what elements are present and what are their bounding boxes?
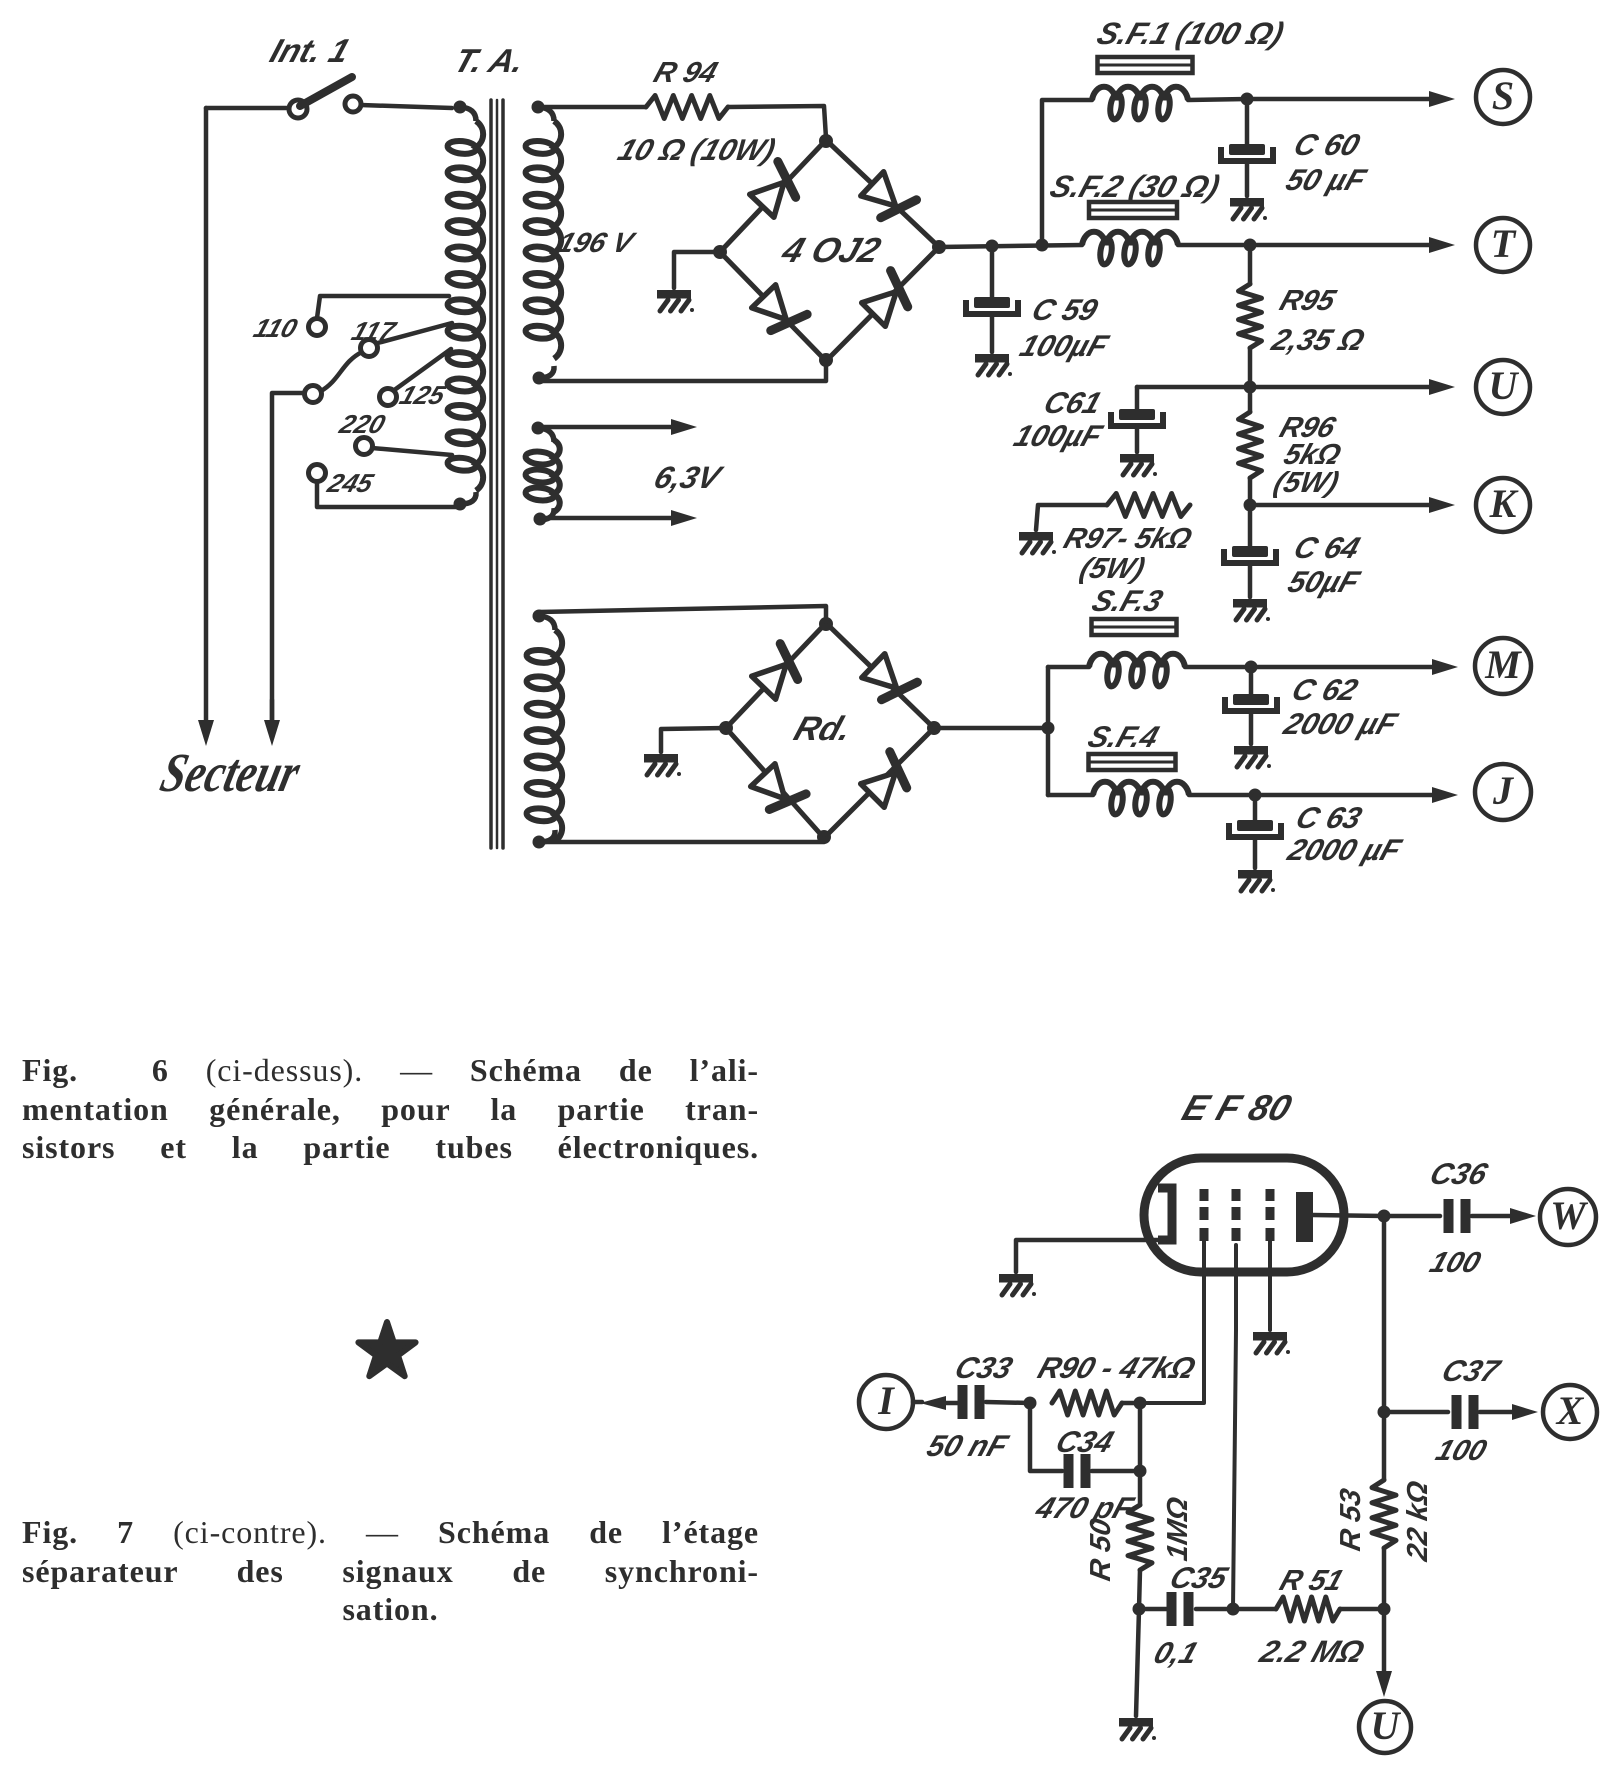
label R 51 bbox=[1276, 1565, 1348, 1597]
svg-text:50 µF: 50 µF bbox=[1282, 163, 1372, 197]
label C34 bbox=[1052, 1425, 1118, 1459]
capacitor C64 bbox=[1224, 505, 1276, 597]
svg-text:R95: R95 bbox=[1276, 285, 1340, 317]
svg-text:R90 - 47kΩ: R90 - 47kΩ bbox=[1034, 1351, 1200, 1385]
ground bridge Rd bbox=[644, 754, 681, 776]
wire to terminal K bbox=[1250, 497, 1455, 513]
node J line bbox=[1249, 789, 1262, 802]
wire X node to R53 bbox=[1382, 1412, 1387, 1480]
ground C60 bbox=[1230, 198, 1267, 220]
wire X node to C37 bbox=[1384, 1410, 1448, 1415]
wire mains top-left bbox=[206, 106, 290, 111]
svg-text:1MΩ: 1MΩ bbox=[1162, 1495, 1194, 1564]
node T line bbox=[1244, 239, 1257, 252]
label 50 nF bbox=[923, 1429, 1014, 1463]
choke S.F.2 bbox=[1082, 232, 1178, 265]
svg-text:T: T bbox=[1491, 221, 1517, 266]
svg-text:100µF: 100µF bbox=[1010, 419, 1108, 453]
svg-text:J: J bbox=[1492, 768, 1515, 813]
wire I arrow bbox=[913, 1396, 958, 1410]
label 117 bbox=[348, 317, 400, 346]
label R53 bbox=[1335, 1486, 1367, 1553]
svg-text:S: S bbox=[1492, 73, 1514, 118]
label R 94 bbox=[650, 57, 722, 89]
svg-text:22 kΩ: 22 kΩ bbox=[1402, 1478, 1434, 1564]
capacitor C37 bbox=[1452, 1395, 1479, 1429]
svg-text:W: W bbox=[1550, 1193, 1588, 1238]
bridge Rd diode bottom-right bbox=[861, 752, 907, 808]
label C 63 bbox=[1292, 801, 1366, 835]
wire to terminal M bbox=[1251, 659, 1458, 675]
node U bbox=[1244, 381, 1257, 394]
svg-text:2.2 MΩ: 2.2 MΩ bbox=[1255, 1634, 1369, 1669]
svg-text:C 59: C 59 bbox=[1028, 293, 1102, 327]
svg-text:S.F.2 (30 Ω): S.F.2 (30 Ω) bbox=[1046, 169, 1225, 204]
capacitor C34 bbox=[1064, 1454, 1091, 1488]
wire C37 to X bbox=[1480, 1404, 1538, 1420]
resistor R50 bbox=[1128, 1505, 1152, 1570]
wire mains left vertical + arrow bbox=[198, 108, 214, 746]
label 196 V bbox=[554, 228, 640, 259]
label C33 bbox=[951, 1351, 1017, 1385]
svg-text:4 OJ2: 4 OJ2 bbox=[776, 230, 885, 270]
label S.F.4 bbox=[1084, 720, 1163, 754]
node C34 out bbox=[1134, 1465, 1147, 1478]
tap 245 circle bbox=[309, 465, 326, 482]
label 2000uF C62 bbox=[1279, 707, 1403, 741]
shield S.F.2 bbox=[1089, 202, 1177, 218]
wire T node down bbox=[1248, 245, 1253, 284]
svg-text:R97- 5kΩ: R97- 5kΩ bbox=[1060, 523, 1196, 555]
wire to terminal J bbox=[1255, 787, 1458, 803]
shield S.F.1 bbox=[1098, 57, 1193, 73]
wire to terminal U bbox=[1250, 379, 1455, 395]
svg-text:S.F.4: S.F.4 bbox=[1084, 720, 1163, 754]
svg-text:C61: C61 bbox=[1040, 386, 1106, 420]
wire bridge to SF2 bbox=[939, 245, 1082, 247]
node anode bbox=[1378, 1210, 1391, 1223]
svg-text:K: K bbox=[1489, 481, 1519, 526]
capacitor C60 bbox=[1221, 99, 1273, 196]
node C33 R90 bbox=[1024, 1397, 1037, 1410]
resistor R95 bbox=[1239, 284, 1262, 348]
wire Rd to SF34 node bbox=[934, 726, 1048, 731]
tap 245 wire bbox=[317, 481, 456, 507]
tap 125 circle bbox=[380, 389, 397, 406]
label 1MR bbox=[1162, 1495, 1194, 1564]
transformer core bbox=[491, 100, 503, 848]
selector wiper wire bbox=[321, 352, 362, 391]
svg-text:C34: C34 bbox=[1052, 1425, 1118, 1459]
wire lower secondary to Rd top bbox=[539, 606, 826, 622]
ground C59 bbox=[975, 354, 1012, 376]
node grid2 bbox=[1227, 1603, 1240, 1616]
star bbox=[358, 1322, 415, 1376]
label 2000uF C63 bbox=[1283, 833, 1407, 867]
label 10R10W bbox=[614, 133, 780, 167]
svg-text:M: M bbox=[1484, 642, 1522, 687]
svg-text:C 60: C 60 bbox=[1290, 128, 1364, 162]
wire SF34 vertical bbox=[1046, 667, 1051, 795]
label Rd. bbox=[789, 710, 856, 748]
wire C35 to grid2 node bbox=[1196, 1607, 1233, 1612]
node SF1 branch bbox=[1036, 239, 1049, 252]
tap 117 circle bbox=[361, 340, 378, 357]
label R95 bbox=[1276, 285, 1340, 317]
wire bottom node to ground bbox=[1136, 1609, 1139, 1716]
bridge 4OJ2 ground wire bbox=[674, 252, 720, 288]
label R96 bbox=[1276, 412, 1340, 444]
label S.F.1 bbox=[1093, 16, 1289, 51]
ground bridge 4OJ2 bbox=[657, 290, 694, 312]
label 5W R97 bbox=[1076, 553, 1149, 585]
label 22kR bbox=[1402, 1478, 1434, 1564]
node SF34 bbox=[1042, 722, 1055, 735]
resistor R94 bbox=[646, 96, 728, 119]
node X line bbox=[1378, 1406, 1391, 1419]
resistor R97 bbox=[1107, 494, 1190, 517]
tube EF80 grids bbox=[1200, 1189, 1275, 1241]
resistor R90 bbox=[1052, 1391, 1122, 1415]
wire cathode to ground bbox=[1016, 1240, 1165, 1272]
bridge Rd diode top-right bbox=[862, 654, 918, 700]
svg-text:E F 80: E F 80 bbox=[1177, 1088, 1296, 1128]
tap 110 circle bbox=[309, 319, 326, 336]
transformer secondary 196V bbox=[525, 101, 561, 385]
resistor R53 bbox=[1372, 1480, 1396, 1548]
node C35 left bbox=[1133, 1603, 1146, 1616]
wire up to SF1 bbox=[1042, 100, 1092, 245]
label 2,35R bbox=[1267, 323, 1369, 357]
wire R53 to bottom node bbox=[1382, 1548, 1387, 1609]
wire SF2 to T bbox=[1178, 243, 1250, 248]
selector wiper circle bbox=[305, 386, 322, 403]
svg-text:X: X bbox=[1555, 1388, 1585, 1433]
label 5kR bbox=[1280, 439, 1345, 471]
svg-text:Secteur: Secteur bbox=[155, 742, 307, 803]
wire switch to transformer bbox=[361, 105, 452, 108]
wire C34 branch bbox=[1030, 1403, 1062, 1471]
capacitor C61 bbox=[1111, 387, 1163, 452]
svg-text:C 62: C 62 bbox=[1288, 673, 1362, 707]
terminal T bbox=[1476, 218, 1530, 272]
wire R90 right bbox=[1122, 1401, 1140, 1406]
wire R51 to node bbox=[1340, 1607, 1384, 1612]
caption Fig 6 bbox=[22, 1051, 759, 1167]
terminal U fig7 bbox=[1359, 1701, 1411, 1753]
wire R97 left bbox=[1036, 505, 1107, 530]
wire Rd bottom to secondary bbox=[539, 838, 824, 842]
label C 64 bbox=[1290, 531, 1364, 565]
bridge 4OJ2 diode bottom-right bbox=[862, 271, 908, 327]
wire C33 to node bbox=[986, 1402, 1030, 1403]
switch Int.1 contact bbox=[345, 96, 361, 112]
label 110 bbox=[250, 314, 301, 343]
node R51 R53 bbox=[1378, 1603, 1391, 1616]
svg-text:S.F.3: S.F.3 bbox=[1088, 584, 1167, 618]
shield S.F.4 bbox=[1089, 754, 1176, 770]
switch Int.1 pivot bbox=[289, 100, 307, 118]
ground grid3 bbox=[1253, 1332, 1290, 1354]
wire to terminal T bbox=[1250, 237, 1455, 253]
svg-text:U: U bbox=[1371, 1703, 1402, 1748]
svg-text:50 nF: 50 nF bbox=[923, 1429, 1014, 1463]
choke S.F.4 bbox=[1093, 782, 1189, 815]
label C 60 bbox=[1290, 128, 1364, 162]
wire to terminal S bbox=[1247, 91, 1455, 107]
label Int. 1 bbox=[265, 33, 354, 70]
tube EF80 cathode bbox=[1158, 1188, 1172, 1240]
svg-text:(5W): (5W) bbox=[1076, 553, 1149, 585]
tap 117 wire bbox=[374, 323, 452, 344]
label 100 C37 bbox=[1432, 1435, 1491, 1467]
wire 6.3V top arrow bbox=[538, 419, 697, 435]
ground C62 bbox=[1234, 746, 1271, 768]
wire R96 to K bbox=[1248, 478, 1253, 505]
label 0,1 bbox=[1150, 1636, 1203, 1670]
svg-text:U: U bbox=[1489, 363, 1520, 408]
ground fig7 bottom bbox=[1119, 1718, 1156, 1740]
label C61 bbox=[1040, 386, 1106, 420]
svg-text:2,35 Ω: 2,35 Ω bbox=[1267, 323, 1369, 357]
wire down arrow to U2 bbox=[1376, 1609, 1392, 1697]
wire grid3 down bbox=[1268, 1241, 1272, 1330]
terminal I bbox=[859, 1375, 913, 1429]
svg-text:50µF: 50µF bbox=[1284, 565, 1365, 599]
label 125 bbox=[396, 381, 450, 410]
svg-text:R 94: R 94 bbox=[650, 57, 722, 89]
label 100 C36 bbox=[1426, 1247, 1485, 1279]
tap 110 wire bbox=[317, 296, 449, 318]
wire SF3 to M bbox=[1185, 665, 1251, 670]
svg-text:(5W): (5W) bbox=[1270, 467, 1343, 499]
svg-text:S.F.1 (100 Ω): S.F.1 (100 Ω) bbox=[1093, 16, 1289, 51]
svg-text:R 50: R 50 bbox=[1085, 1516, 1117, 1583]
terminal J bbox=[1475, 764, 1531, 820]
wire SF1 to S bbox=[1188, 99, 1247, 100]
label 100uF C59 bbox=[1016, 329, 1114, 363]
wire to SF4 bbox=[1048, 793, 1093, 798]
bridge Rd ground wire bbox=[661, 728, 726, 752]
label R97 bbox=[1060, 523, 1196, 555]
wire grid2node to R51 bbox=[1233, 1607, 1276, 1612]
ground C64 bbox=[1233, 599, 1270, 621]
label Secteur bbox=[155, 742, 307, 803]
node C59 bbox=[986, 240, 999, 253]
transformer lower secondary bbox=[526, 610, 562, 849]
wire grid1 down bbox=[1140, 1241, 1204, 1403]
wire U to C61 bbox=[1137, 385, 1250, 390]
caption Fig 7 bbox=[22, 1513, 759, 1629]
terminal W bbox=[1540, 1189, 1596, 1245]
shield S.F.3 bbox=[1092, 619, 1177, 635]
bridge 4OJ2 frame bbox=[713, 134, 946, 367]
ground cathode bbox=[999, 1274, 1036, 1296]
label 220 bbox=[335, 410, 389, 439]
capacitor C33 bbox=[958, 1385, 985, 1419]
bridge 4OJ2 diode top-right bbox=[861, 172, 917, 218]
wire R90 node down bbox=[1138, 1403, 1143, 1505]
node M line bbox=[1245, 661, 1258, 674]
svg-text:2000 µF: 2000 µF bbox=[1279, 707, 1403, 741]
transformer primary winding bbox=[447, 101, 483, 511]
label C 59 bbox=[1028, 293, 1102, 327]
wire grid2 down bbox=[1233, 1245, 1236, 1609]
svg-text:C33: C33 bbox=[951, 1351, 1017, 1385]
label 6,3V bbox=[650, 460, 728, 495]
svg-text:C 64: C 64 bbox=[1290, 531, 1364, 565]
label 5W R96 bbox=[1270, 467, 1343, 499]
wire anode to C36 bbox=[1384, 1214, 1440, 1219]
wire anode out bbox=[1313, 1215, 1384, 1216]
label R50 bbox=[1085, 1516, 1117, 1583]
tap 220 circle bbox=[356, 438, 373, 455]
svg-text:470 pF: 470 pF bbox=[1031, 1491, 1139, 1525]
capacitor C62 bbox=[1225, 667, 1277, 744]
choke S.F.3 bbox=[1089, 654, 1185, 687]
terminal M bbox=[1475, 638, 1531, 694]
capacitor C35 bbox=[1139, 1592, 1194, 1626]
svg-text:196 V: 196 V bbox=[554, 228, 640, 259]
node SF1 out bbox=[1241, 93, 1254, 106]
capacitor C36 bbox=[1444, 1199, 1471, 1233]
transformer winding 6.3V bbox=[525, 422, 560, 526]
wire R94 to bridge bbox=[728, 106, 826, 138]
wire secondary to R94 bbox=[538, 105, 646, 110]
resistor R51 bbox=[1276, 1597, 1340, 1621]
wire anode down to X node bbox=[1382, 1216, 1387, 1412]
label C37 bbox=[1438, 1354, 1506, 1388]
wire R96 stub bbox=[1248, 387, 1253, 412]
label 50uF C60 bbox=[1282, 163, 1372, 197]
ground R97 bbox=[1019, 532, 1056, 554]
capacitor C59 bbox=[966, 246, 1018, 352]
wire to SF3 bbox=[1048, 665, 1089, 670]
svg-text:R 51: R 51 bbox=[1276, 1565, 1348, 1597]
label C 62 bbox=[1288, 673, 1362, 707]
svg-text:2000 µF: 2000 µF bbox=[1283, 833, 1407, 867]
tap 125 wire bbox=[393, 349, 451, 391]
terminal U bbox=[1476, 360, 1530, 414]
tap 220 wire bbox=[372, 448, 452, 455]
resistor R96 bbox=[1239, 412, 1262, 478]
wire SF4 to J bbox=[1189, 793, 1255, 798]
label 100uF C61 bbox=[1010, 419, 1108, 453]
label EF80 bbox=[1177, 1088, 1296, 1128]
label 2.2MR bbox=[1255, 1634, 1369, 1669]
wire C36 to W bbox=[1472, 1208, 1536, 1224]
label S.F.2 bbox=[1046, 169, 1225, 204]
label R90 bbox=[1034, 1351, 1200, 1385]
svg-text:Int. 1: Int. 1 bbox=[265, 33, 354, 70]
label C36 bbox=[1426, 1157, 1493, 1191]
label C35 bbox=[1166, 1561, 1233, 1595]
svg-text:T. A.: T. A. bbox=[449, 43, 529, 80]
wire R95 to U node bbox=[1248, 348, 1253, 387]
svg-text:I: I bbox=[877, 1378, 895, 1423]
svg-text:10 Ω (10W): 10 Ω (10W) bbox=[614, 133, 780, 167]
label 470 pF bbox=[1031, 1491, 1139, 1525]
svg-text:100µF: 100µF bbox=[1016, 329, 1114, 363]
label S.F.3 bbox=[1088, 584, 1167, 618]
bridge Rd frame bbox=[719, 617, 941, 844]
bridge 4OJ2 diode top-left bbox=[750, 162, 796, 218]
node R90 out bbox=[1134, 1397, 1147, 1410]
tube EF80 envelope bbox=[1144, 1158, 1344, 1272]
wire mains tap vertical + arrow bbox=[264, 393, 313, 746]
ground C63 bbox=[1238, 870, 1275, 892]
bridge 4OJ2 diode bottom-left bbox=[752, 285, 808, 331]
label 245 bbox=[323, 469, 378, 498]
bridge Rd diode bottom-left bbox=[751, 764, 806, 810]
terminal S bbox=[1476, 70, 1530, 124]
tube EF80 anode bbox=[1296, 1192, 1313, 1242]
choke S.F.1 bbox=[1092, 87, 1188, 120]
bridge Rd diode top-left bbox=[752, 644, 798, 700]
wire R50 to bottom node bbox=[1139, 1570, 1140, 1609]
wire 6.3V bottom arrow bbox=[540, 510, 697, 526]
label 50uF C64 bbox=[1284, 565, 1365, 599]
terminal X bbox=[1543, 1385, 1597, 1439]
switch Int.1 lever bbox=[300, 77, 352, 106]
label T.A. bbox=[449, 43, 529, 80]
svg-text:R 53: R 53 bbox=[1335, 1486, 1367, 1553]
terminal K bbox=[1476, 478, 1530, 532]
wire bridge bottom to secondary bbox=[539, 361, 826, 381]
wire C34 to node bbox=[1092, 1469, 1140, 1474]
ground C61 bbox=[1120, 454, 1157, 476]
label 4 OJ2 bbox=[776, 230, 885, 270]
capacitor C63 bbox=[1229, 795, 1281, 868]
node K bbox=[1244, 499, 1257, 512]
svg-text:C 63: C 63 bbox=[1292, 801, 1366, 835]
